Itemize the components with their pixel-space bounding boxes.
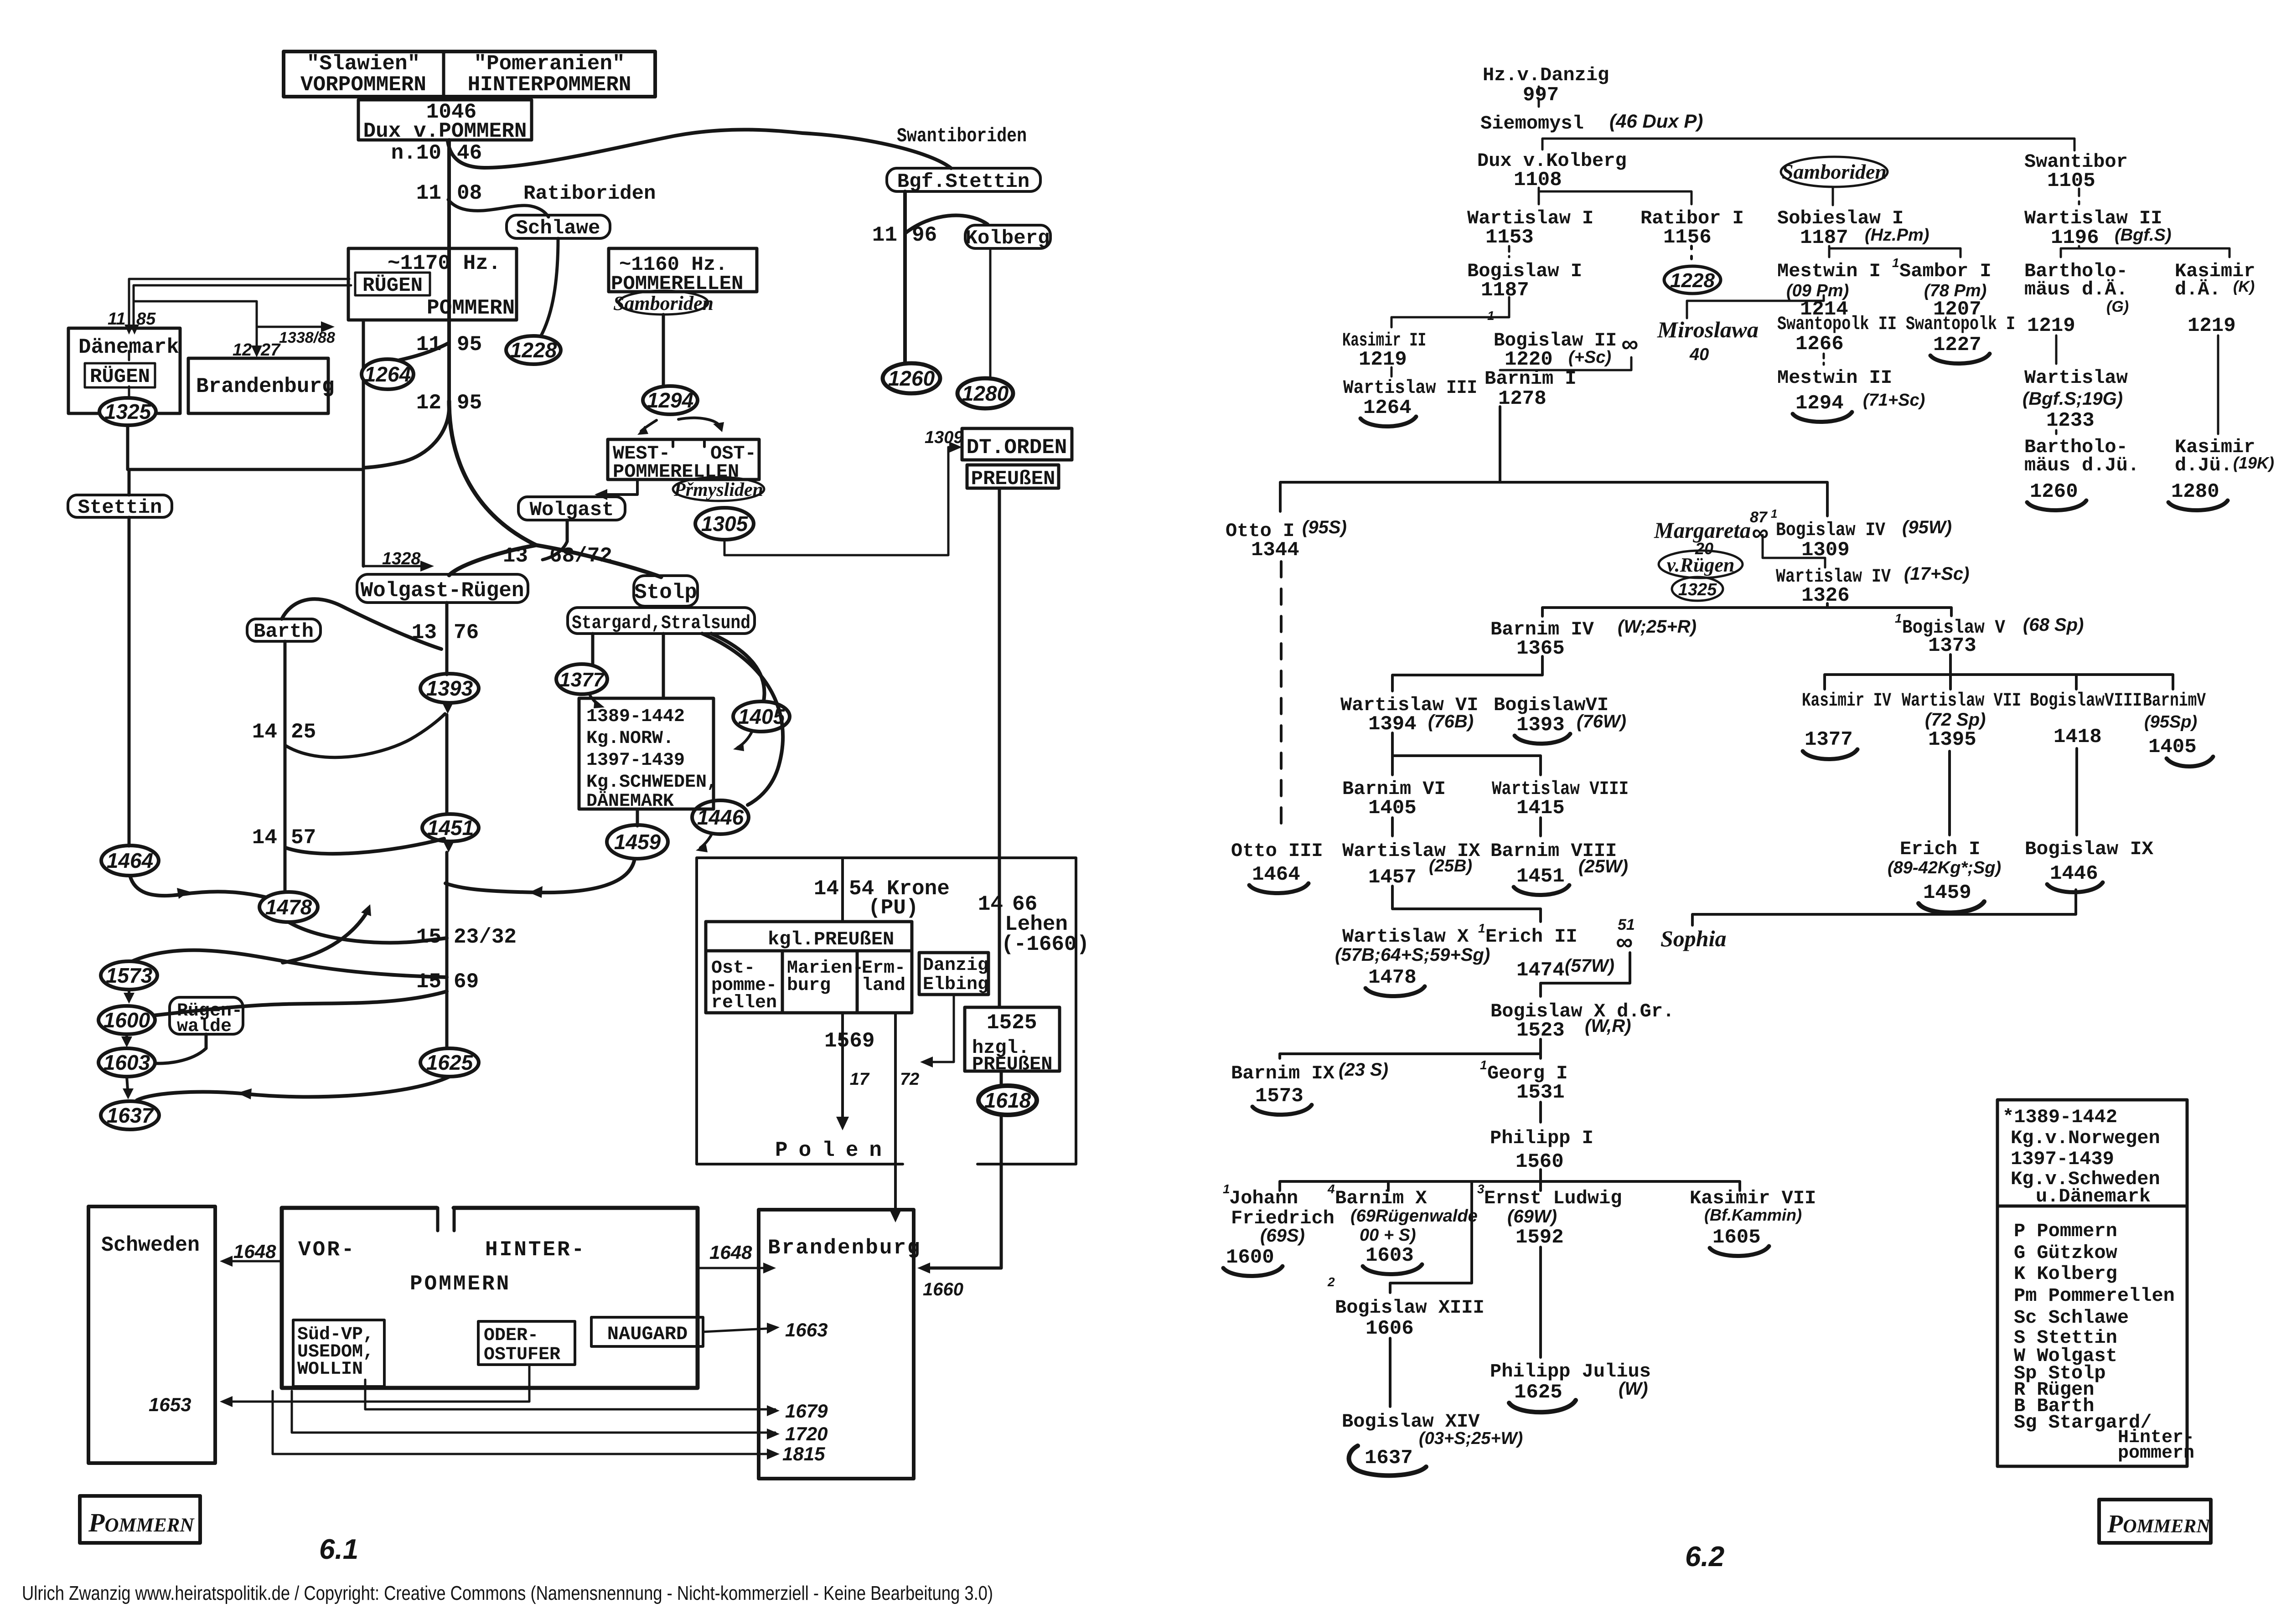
svg-text:(95W): (95W) — [1902, 517, 1952, 537]
svg-text:08: 08 — [457, 181, 482, 205]
node Barnim VI — [1342, 778, 1446, 820]
city tag Stargard,Stralsund — [568, 608, 755, 634]
svg-text:1389-1442: 1389-1442 — [586, 706, 685, 727]
wire 1446 arrow — [700, 835, 711, 848]
svg-text:1294: 1294 — [647, 388, 693, 412]
svg-text:P Pommern: P Pommern — [2014, 1220, 2117, 1242]
wire 1294 to WEST arrow — [641, 420, 657, 431]
svg-text:Bogislaw IX: Bogislaw IX — [2025, 838, 2154, 860]
wire NAUGARD to 1663 — [703, 1328, 775, 1332]
wire Swantibor down dashed — [2078, 189, 2080, 204]
oval 1603 — [98, 1048, 155, 1077]
svg-text:Kg.NORW.: Kg.NORW. — [586, 728, 674, 749]
box WEST-/OST-POMMERELLEN — [608, 439, 759, 483]
box Daenemark — [68, 328, 180, 413]
svg-text:(89-42Kg*;Sg): (89-42Kg*;Sg) — [1888, 858, 2001, 877]
script Prmysliden bubble — [673, 477, 764, 501]
svg-text:(69S): (69S) — [1260, 1226, 1305, 1246]
node Bogislaw XIII — [1327, 1275, 1485, 1340]
wire main vertical Dux line — [447, 140, 451, 401]
svg-text:(25W): (25W) — [1578, 856, 1628, 876]
svg-text:15: 15 — [416, 970, 441, 994]
box Schweden — [88, 1206, 215, 1463]
oval 1618 — [978, 1086, 1037, 1115]
svg-text:1338/88: 1338/88 — [279, 329, 335, 346]
svg-text:"Slawien": "Slawien" — [307, 52, 420, 76]
svg-text:(17+Sc): (17+Sc) — [1904, 564, 1969, 584]
svg-text:1393: 1393 — [426, 676, 473, 700]
svg-text:Swantiboriden: Swantiboriden — [897, 125, 1027, 148]
svg-text:HINTER-: HINTER- — [485, 1238, 586, 1262]
svg-text:Pm Pommerellen: Pm Pommerellen — [2014, 1285, 2175, 1307]
svg-text:Bogislaw IV: Bogislaw IV — [1776, 519, 1886, 541]
node Ratibor I — [1640, 207, 1744, 249]
node Sobieslaw I — [1777, 207, 1929, 249]
svg-text:Barth: Barth — [253, 620, 314, 643]
oval 1600 — [98, 1006, 155, 1034]
node Bogislaw VI — [1494, 694, 1626, 737]
node Otto I — [1226, 517, 1347, 562]
svg-text:1592: 1592 — [1516, 1226, 1564, 1249]
wire 1625 to 1637 long curve — [137, 1077, 450, 1100]
wire Barth vertical — [284, 641, 287, 892]
svg-text:∞: ∞ — [1621, 331, 1638, 357]
svg-text:1415: 1415 — [1516, 797, 1565, 820]
svg-text:Hz.v.Danzig: Hz.v.Danzig — [1483, 64, 1609, 86]
node Wartislaw III — [1343, 377, 1477, 419]
svg-text:1573: 1573 — [1255, 1085, 1304, 1108]
svg-text:11: 11 — [416, 181, 441, 205]
svg-text:1187: 1187 — [1800, 227, 1848, 249]
svg-text:(19K): (19K) — [2233, 454, 2274, 472]
svg-text:1228: 1228 — [1670, 269, 1715, 292]
wire Kasimir dAe down long — [2217, 335, 2219, 434]
wire 1679 line — [365, 1380, 775, 1409]
svg-text:6.2: 6.2 — [1685, 1541, 1724, 1572]
svg-text:1395: 1395 — [1928, 728, 1976, 751]
svg-text:69: 69 — [454, 970, 479, 994]
wire Bogislaw II marriage to Barnim I — [1500, 357, 1631, 370]
svg-text:n.10: n.10 — [391, 141, 441, 165]
svg-text:(68 Sp): (68 Sp) — [2023, 615, 2084, 635]
svg-text:Dux v.POMMERN: Dux v.POMMERN — [363, 119, 527, 143]
svg-text:Wartislaw X: Wartislaw X — [1342, 926, 1469, 948]
legend abbreviation list — [2014, 1220, 2194, 1464]
svg-text:"Pomeranien": "Pomeranien" — [474, 52, 625, 76]
wire hzgl to 1618 to 1660 — [922, 1071, 1001, 1268]
wire 1328 arrow — [363, 565, 430, 567]
wire 1325 down to Stettin junction — [126, 425, 129, 469]
box ~1170 Hz. RUEGEN POMMERN — [348, 248, 517, 320]
svg-text:1219: 1219 — [2188, 314, 2236, 337]
svg-text:23/32: 23/32 — [454, 925, 517, 949]
svg-text:(-1660): (-1660) — [1001, 933, 1089, 956]
wire Bogislaw I down bar — [1391, 297, 1509, 327]
box Sued-VP USEDOM WOLLIN — [293, 1320, 384, 1387]
svg-text:Barnim IX: Barnim IX — [1231, 1062, 1335, 1084]
wire Ratiboriden curve to Schlawe — [448, 200, 548, 217]
svg-text:11: 11 — [108, 309, 125, 329]
node Erich I — [1888, 838, 2001, 904]
node Barnim IV — [1490, 617, 1697, 660]
wire cusp left branch into Wolgast-Ruegen — [449, 545, 536, 575]
svg-text:1377: 1377 — [1805, 728, 1853, 751]
svg-text:Brandenburg: Brandenburg — [768, 1236, 921, 1260]
arc 1393 — [1515, 734, 1570, 744]
svg-text:(69Rügenwalde: (69Rügenwalde — [1350, 1206, 1478, 1226]
wire Krone vertical — [841, 858, 844, 922]
svg-text:1393: 1393 — [1516, 714, 1565, 737]
svg-text:Kasimir IV: Kasimir IV — [1802, 690, 1892, 711]
node Otto III — [1231, 840, 1323, 886]
script Samboriden bubble — [613, 291, 714, 314]
svg-text:Ernst Ludwig: Ernst Ludwig — [1484, 1187, 1622, 1209]
svg-text:mäus d.Ä.: mäus d.Ä. — [2024, 278, 2128, 300]
svg-text:1325: 1325 — [1678, 580, 1717, 599]
wire Bogislaw V children bar — [1825, 655, 2173, 689]
box VOR-/HINTER-POMMERN — [282, 1208, 698, 1388]
wire Kasimir II to Wartislaw III — [1391, 367, 1393, 376]
wire arrow below 1600 — [125, 1034, 128, 1043]
box 1525 hzgl.PREUSSEN — [965, 1007, 1060, 1075]
svg-text:1605: 1605 — [1712, 1226, 1761, 1249]
wire 1648 arrow to Schweden — [224, 1260, 282, 1263]
wire Schlawe to 1228 — [541, 238, 558, 336]
box DT.ORDEN — [962, 428, 1072, 460]
svg-text:997: 997 — [1523, 84, 1559, 107]
wire Sobieslaw children bar — [1829, 246, 1960, 257]
svg-text:1105: 1105 — [2047, 170, 2095, 192]
svg-text:1305: 1305 — [701, 512, 749, 536]
svg-text:burg: burg — [787, 975, 831, 996]
legend header text — [2002, 1106, 2160, 1207]
arc 1464 tree — [1249, 883, 1309, 893]
svg-text:Kolberg: Kolberg — [966, 227, 1050, 250]
svg-text:Sc Schlawe: Sc Schlawe — [2014, 1307, 2129, 1329]
svg-text:Bogislaw XIII: Bogislaw XIII — [1335, 1297, 1485, 1319]
wire arrows into Daenemark 1185 — [124, 325, 134, 335]
svg-text:1233: 1233 — [2046, 409, 2095, 432]
wire Wartislaw VIII to Barnim VIII — [1539, 818, 1542, 836]
wire Stargard to 1377 — [591, 634, 595, 665]
svg-text:mäus d.Jü.: mäus d.Jü. — [2024, 454, 2139, 476]
svg-text:1464: 1464 — [1252, 863, 1300, 886]
node Bogislaw I — [1467, 260, 1582, 302]
arc 1573 tree — [1252, 1105, 1312, 1115]
box kgl.PREUSSEN table — [706, 922, 912, 1013]
svg-text:u.Dänemark: u.Dänemark — [2036, 1186, 2151, 1207]
svg-text:1: 1 — [1478, 921, 1485, 935]
box ~1160 Hz. POMMERELLEN — [609, 248, 757, 295]
script Miroslawa — [1657, 317, 1759, 364]
script Samboriden bubble 62 — [1781, 157, 1888, 205]
wire 1648 arrow to Brandenburg — [698, 1267, 771, 1269]
oval 1377 — [556, 664, 607, 694]
wire Ratibor I to 1228 dotted — [1690, 246, 1693, 265]
node Sambor I — [1892, 256, 1991, 321]
svg-text:1418: 1418 — [2054, 726, 2102, 748]
wire 1294 to OST arrow — [678, 418, 720, 427]
wire Wartislaw I down dashed — [1508, 246, 1510, 257]
node Barnim V — [2143, 690, 2206, 758]
wire 1464 curve to 1478 — [130, 876, 284, 902]
svg-text:Danzig: Danzig — [923, 955, 988, 976]
arc 1637 tree open oval — [1349, 1446, 1427, 1475]
wire vertical Wolgast-Ruegen to 1393 — [445, 603, 449, 675]
svg-text:95: 95 — [457, 333, 482, 356]
svg-text:1280: 1280 — [962, 382, 1009, 405]
wire arrow below 1393 — [446, 703, 449, 709]
wire RUEGEN to Daenemark double line — [129, 279, 349, 330]
svg-text:1625: 1625 — [1514, 1381, 1562, 1404]
svg-text:(72 Sp): (72 Sp) — [1925, 710, 1986, 730]
node Barnim IX — [1231, 1060, 1388, 1108]
svg-text:1219: 1219 — [1359, 348, 1407, 371]
svg-text:Barnim I: Barnim I — [1485, 368, 1577, 390]
svg-text:Ulrich Zwanzig www.heiratspoli: Ulrich Zwanzig www.heiratspolitik.de / C… — [22, 1582, 993, 1604]
svg-text:1451: 1451 — [1516, 865, 1565, 888]
svg-text:*1389-1442: *1389-1442 — [2002, 1106, 2117, 1128]
oval 1451 — [422, 814, 479, 841]
svg-text:1600: 1600 — [1226, 1246, 1274, 1269]
node Mestwin I — [1777, 260, 1881, 321]
oval 1405 — [733, 701, 790, 732]
wire arrow below 1573 — [128, 990, 130, 999]
wire to Brandenburg 1227 — [134, 301, 257, 353]
oval 1260 — [883, 363, 940, 393]
oval 1280 — [957, 378, 1013, 408]
node Siemomysl — [1480, 110, 1703, 134]
city tag Bgf.Stettin — [887, 168, 1040, 193]
node Johann Friedrich — [1223, 1182, 1335, 1269]
wire arrow below 1451 — [447, 841, 450, 848]
svg-text:1459: 1459 — [1923, 882, 1971, 904]
wire 1425 S-curve to main vertical — [285, 714, 445, 758]
wire 1720 line — [292, 1391, 775, 1433]
box Dux v.POMMERN 1046 — [358, 100, 532, 143]
box PREUSSEN — [967, 465, 1059, 490]
svg-text:Swantopolk II: Swantopolk II — [1777, 313, 1897, 335]
box Pommern logo right — [2099, 1500, 2211, 1543]
svg-text:rellen: rellen — [711, 993, 777, 1013]
svg-text:Samboriden: Samboriden — [1782, 160, 1887, 183]
svg-text:1603: 1603 — [1366, 1244, 1414, 1267]
wire Dux to Swantiboriden curve — [448, 129, 951, 168]
arc 1294 — [1793, 412, 1852, 422]
svg-text:(Hz.Pm): (Hz.Pm) — [1865, 226, 1929, 245]
wire Stargard to 1405 curve — [711, 634, 765, 701]
svg-text:Siemomysl: Siemomysl — [1480, 113, 1584, 134]
svg-text:1603: 1603 — [103, 1051, 150, 1074]
wire rising arrow curve — [283, 910, 368, 963]
oval 1464 — [101, 846, 159, 876]
oval 1294 — [643, 386, 698, 414]
node Dux v.Kolberg — [1477, 150, 1627, 191]
wire Samboriden to 1294 — [662, 314, 665, 387]
svg-text:VOR-: VOR- — [298, 1238, 356, 1262]
svg-text:(Bgf.S;19G): (Bgf.S;19G) — [2023, 389, 2123, 409]
node Barnim VIII — [1490, 840, 1628, 888]
node Bogislaw IV — [1776, 517, 1952, 562]
svg-text:Barnim X: Barnim X — [1335, 1187, 1427, 1209]
svg-text:1326: 1326 — [1801, 584, 1850, 607]
svg-text:d.Ä.: d.Ä. — [2175, 278, 2221, 300]
wire Wartislaw IX children bar — [1392, 886, 1541, 922]
svg-text:1264: 1264 — [1363, 397, 1412, 419]
wire Barnim I long drop and bar — [1280, 407, 1827, 516]
wire Stargard to 1446 long curve — [702, 634, 783, 805]
node Hz.v.Danzig — [1483, 64, 1609, 107]
oval 1625 — [420, 1048, 479, 1077]
svg-text:(78 Pm): (78 Pm) — [1924, 281, 1986, 300]
svg-text:(W): (W) — [1619, 1379, 1648, 1399]
svg-text:Sophia: Sophia — [1660, 926, 1727, 951]
node Bogislaw V — [1895, 611, 2084, 657]
svg-text:1219: 1219 — [2027, 314, 2075, 337]
svg-text:Kg.v.Norwegen: Kg.v.Norwegen — [2011, 1127, 2160, 1149]
wire 1772 vertical to Brandenburg — [894, 1013, 897, 1217]
svg-text:∞: ∞ — [1752, 520, 1769, 546]
arc 1600 tree — [1223, 1266, 1283, 1276]
box ODER-OSTUFER — [478, 1321, 575, 1365]
svg-text:1653: 1653 — [149, 1394, 191, 1415]
svg-text:14: 14 — [252, 720, 277, 744]
wire Bogislaw VIII to Bogislaw IX — [2075, 748, 2078, 835]
wire cusp right branch to Stolp — [536, 545, 661, 577]
svg-text:76: 76 — [454, 621, 479, 644]
svg-text:1478: 1478 — [1368, 966, 1417, 989]
script Margareta — [1654, 507, 1777, 558]
svg-text:1459: 1459 — [614, 830, 661, 854]
svg-text:12: 12 — [233, 340, 252, 360]
node Wartislaw II — [2024, 207, 2172, 249]
svg-text:(95Sp): (95Sp) — [2144, 712, 2197, 732]
svg-text:BogislawVIII: BogislawVIII — [2030, 690, 2142, 711]
wire Margareta marriage — [1763, 535, 1825, 567]
svg-text:1264: 1264 — [364, 362, 411, 386]
node Bogislaw VIII — [2030, 690, 2142, 748]
svg-text:Brandenburg: Brandenburg — [196, 375, 335, 398]
svg-text:RÜGEN: RÜGEN — [362, 274, 423, 297]
svg-text:K Kolberg: K Kolberg — [2014, 1263, 2117, 1285]
wire 15|69 branch to 1600 — [145, 991, 447, 1016]
node Wartislaw I — [1467, 207, 1593, 249]
svg-text:1569: 1569 — [824, 1029, 874, 1053]
wire horizontal Stettin junction — [129, 468, 363, 471]
svg-text:(25B): (25B) — [1429, 856, 1472, 876]
svg-text:(57W): (57W) — [1565, 956, 1614, 976]
arc 1264 — [1360, 417, 1416, 427]
wire 11|95 split to 1264 — [399, 343, 449, 360]
wire 1478 down-right crossing — [289, 922, 447, 943]
wire Miroslawa bar — [1687, 295, 1824, 318]
wire Otto I to Otto III long dashed — [1280, 562, 1283, 835]
node Swantopolk II — [1777, 313, 1897, 356]
svg-text:(09 Pm): (09 Pm) — [1786, 281, 1849, 300]
node Georg I — [1480, 1058, 1567, 1104]
svg-text:1260: 1260 — [888, 366, 935, 390]
svg-text:(03+S;25+W): (03+S;25+W) — [1419, 1429, 1523, 1448]
node Bartholomaeus d.Jue. — [2024, 436, 2139, 503]
oval 1393 — [420, 674, 479, 703]
arc 1377 — [1803, 749, 1857, 759]
wire 1459 curve to 1478 — [445, 859, 635, 892]
svg-text:1405: 1405 — [1368, 797, 1417, 820]
svg-text:17: 17 — [850, 1070, 870, 1089]
svg-text:(G): (G) — [2106, 298, 2129, 315]
svg-text:1679: 1679 — [785, 1400, 828, 1422]
svg-text:1187: 1187 — [1481, 279, 1529, 302]
node Mestwin II — [1777, 367, 1925, 415]
wire Bogislaw XIII junction — [1390, 1181, 1472, 1293]
wire Daenemark inner vertical — [128, 351, 130, 397]
svg-text:Wolgast-Rügen: Wolgast-Rügen — [361, 579, 524, 603]
svg-text:1660: 1660 — [923, 1279, 963, 1299]
wire Ernst Ludwig to Philipp Julius — [1539, 1247, 1542, 1357]
svg-text:1365: 1365 — [1516, 637, 1565, 660]
wire Wartislaw IV children bar — [1542, 603, 1951, 616]
svg-text:Mestwin II: Mestwin II — [1777, 367, 1892, 389]
svg-text:Johann: Johann — [1229, 1187, 1298, 1209]
box NAUGARD — [591, 1317, 703, 1346]
svg-text:POMMERN: POMMERN — [410, 1272, 511, 1296]
svg-text:1637: 1637 — [1365, 1447, 1413, 1469]
svg-text:Erich II: Erich II — [1485, 926, 1578, 948]
svg-text:1815: 1815 — [782, 1443, 825, 1464]
svg-text:95: 95 — [457, 391, 482, 415]
svg-text:1446: 1446 — [697, 805, 744, 829]
svg-text:(57B;64+S;59+Sg): (57B;64+S;59+Sg) — [1335, 945, 1490, 965]
wire Barth hump from main vertical — [282, 599, 441, 649]
svg-text:Otto III: Otto III — [1231, 840, 1323, 862]
svg-text:25: 25 — [291, 720, 316, 744]
svg-text:POMMERN: POMMERN — [427, 296, 515, 320]
box legend right — [1997, 1100, 2187, 1466]
wire Wartislaw 1233 down dashed — [2055, 430, 2058, 434]
wire Swantopolk II to Mestwin II dashed — [1823, 354, 1825, 365]
city tag Schlawe — [507, 215, 610, 240]
svg-text:1573: 1573 — [106, 964, 153, 987]
oval 1459 — [607, 825, 668, 859]
svg-text:(Bf.Kammin): (Bf.Kammin) — [1704, 1206, 1802, 1224]
svg-text:1196: 1196 — [2051, 227, 2099, 249]
svg-text:(W;25+R): (W;25+R) — [1618, 617, 1697, 637]
wire vertical 1393 to 1451 — [445, 715, 449, 814]
oval 1573 — [101, 961, 157, 990]
svg-text:1478: 1478 — [265, 895, 312, 919]
box Danzig Elbing — [919, 953, 988, 995]
arc 1280 — [2168, 500, 2228, 510]
svg-text:DÄNEMARK: DÄNEMARK — [586, 790, 674, 812]
svg-text:Elbing: Elbing — [923, 974, 988, 995]
svg-text:Kg.SCHWEDEN,: Kg.SCHWEDEN, — [586, 772, 718, 793]
oval 1228 — [506, 336, 561, 364]
city tag Kolberg — [965, 225, 1050, 250]
wire Wartislaw VII to Erich I — [1948, 751, 1951, 835]
wire 1377 arrow into box — [589, 694, 600, 706]
svg-text:Stettin: Stettin — [78, 496, 162, 519]
wire 12|95 branch to left vertical — [365, 407, 449, 468]
node Wartislaw VI — [1340, 694, 1478, 736]
svg-text:12: 12 — [416, 391, 441, 415]
wire Georg I to Philipp I — [1539, 1102, 1542, 1122]
svg-text:Stargard,Stralsund: Stargard,Stralsund — [572, 612, 750, 634]
arc 1227 — [1930, 354, 1990, 364]
arc 1459 tree — [1919, 902, 1984, 913]
svg-text:(46 Dux P): (46 Dux P) — [1609, 110, 1703, 132]
arc 1478 tree — [1366, 986, 1425, 996]
svg-text:BarnimV: BarnimV — [2143, 690, 2206, 711]
